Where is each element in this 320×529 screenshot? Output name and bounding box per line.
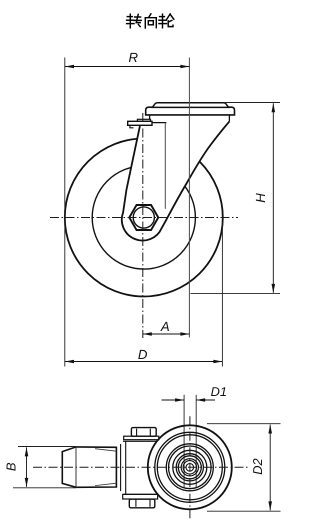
title 转向轮 (drawn as strokes)	[127, 14, 174, 28]
top washer	[124, 436, 159, 440]
svg-text:R: R	[129, 50, 139, 65]
axle circle inside nut	[133, 207, 154, 228]
brake tab	[128, 121, 152, 125]
bottom view horizontal centerline	[33, 466, 248, 468]
tread edge line bottom	[95, 483, 116, 485]
svg-text:D: D	[138, 347, 148, 362]
extension line right of D	[221, 222, 223, 367]
swivel head cap	[152, 103, 228, 108]
dimension R	[65, 50, 189, 68]
wheel outer circle	[65, 139, 223, 297]
svg-text:D2: D2	[250, 458, 265, 474]
brake tab upper step	[137, 119, 150, 121]
bolt hole hidden edge	[164, 123, 166, 209]
dimension A	[143, 319, 190, 336]
hex nut	[129, 205, 158, 230]
swivel head body left step	[150, 115, 167, 123]
bottom hex nut	[129, 499, 155, 508]
bottom view vertical centerline	[189, 416, 191, 519]
dimension H	[191, 103, 281, 294]
wheel vertical centerline	[142, 113, 144, 338]
fork plate bottom edge	[123, 493, 158, 495]
xiang 向	[149, 14, 151, 17]
swivel head circles	[148, 425, 232, 509]
tread chamfer line	[75, 447, 77, 487]
svg-text:D1: D1	[211, 384, 227, 399]
svg-text:H: H	[253, 193, 268, 203]
bolt hole edge lines	[183, 395, 185, 489]
fork leg edge lines	[120, 444, 122, 491]
tab tick	[130, 125, 134, 128]
fork (swivel bracket) outline	[122, 121, 230, 240]
fork plate top edge	[123, 440, 157, 442]
wheel tread outline	[62, 447, 116, 487]
swivel head flange	[146, 107, 235, 115]
bottom washer	[123, 494, 158, 499]
wheel horizontal centerline	[50, 217, 238, 219]
zhuan 转	[127, 16, 132, 18]
swivel head body right edge	[228, 115, 230, 121]
tread edge line top	[95, 449, 116, 452]
dimension B	[4, 447, 76, 488]
dimension D1	[162, 384, 227, 402]
dimension D	[65, 347, 222, 364]
extension line left (R and D)	[64, 58, 66, 367]
top hex bolt head	[131, 428, 156, 437]
dimension D2	[207, 424, 281, 512]
fork (swivel bracket) fill	[122, 115, 230, 241]
lun 轮	[160, 16, 165, 18]
wheel inner circle	[92, 166, 195, 269]
svg-text:A: A	[160, 319, 170, 334]
svg-text:B: B	[4, 462, 19, 471]
swivel axis line	[188, 58, 190, 338]
